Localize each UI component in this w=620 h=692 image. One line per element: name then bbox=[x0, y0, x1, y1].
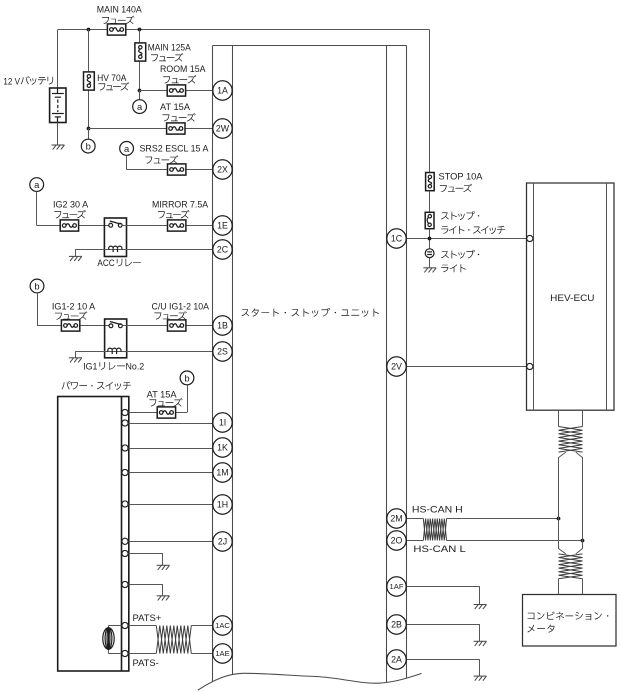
svg-text:a: a bbox=[137, 101, 143, 112]
ground (power switch 1) bbox=[157, 565, 170, 570]
fuse ROOM 15A bbox=[167, 85, 185, 96]
pin 1AC (start-stop unit) bbox=[213, 616, 232, 635]
label MIRROR 7.5A fuse bbox=[152, 199, 209, 218]
wire: power switch to pin 1K bbox=[128, 448, 213, 450]
svg-text:2S: 2S bbox=[217, 347, 228, 357]
pin 2B (start-stop unit) bbox=[387, 615, 406, 634]
svg-text:IG1: IG1 bbox=[83, 362, 97, 372]
svg-text:MAIN 140A: MAIN 140A bbox=[97, 5, 143, 15]
wire: pin 2B to ground bbox=[406, 624, 480, 626]
ground (battery) bbox=[52, 145, 65, 150]
wire: power switch AT 15A branch to node b bbox=[128, 412, 187, 414]
ground (stop light) bbox=[423, 268, 436, 273]
label combination meter bbox=[528, 612, 609, 633]
svg-text:b: b bbox=[86, 141, 91, 152]
svg-text:2W: 2W bbox=[216, 124, 230, 134]
node a (top) bbox=[133, 100, 147, 114]
pin 2W (start-stop unit) bbox=[213, 119, 232, 138]
wire: pin 1C to HEV-ECU bbox=[406, 238, 527, 240]
antenna coil (immobilizer) bbox=[103, 628, 114, 650]
wire: HS-CAN L to CAN bus joint bbox=[447, 540, 583, 542]
label stop light bbox=[441, 250, 479, 272]
svg-text:2X: 2X bbox=[217, 165, 228, 175]
relay ACC switch contacts bbox=[109, 221, 122, 227]
wire: stoplight switch to 1C wire junction bbox=[429, 229, 431, 249]
node: junction MAIN125A / ROOM 15A wire bbox=[138, 89, 142, 93]
pin 1C (start-stop unit) bbox=[387, 229, 406, 248]
wire: ACC relay to MIRROR fuse to pin 1E bbox=[122, 225, 213, 227]
svg-text:1AF: 1AF bbox=[390, 582, 404, 591]
power switch (box) bbox=[58, 397, 129, 672]
twisted pair HS-CAN bbox=[423, 519, 446, 541]
label IG2 30A fuse bbox=[53, 199, 89, 218]
wire: ROOM 15A fuse to pin 1A bbox=[139, 90, 213, 92]
wire: HS-CAN H to CAN bus joint bbox=[447, 518, 559, 520]
svg-text:a: a bbox=[34, 179, 40, 190]
wire: power switch ground 1 bbox=[128, 553, 163, 555]
fuse MAIN 125A bbox=[135, 43, 146, 61]
ground (2B) bbox=[474, 641, 487, 646]
wire: AT 15A fuse to pin 2W bbox=[89, 128, 213, 130]
battery 12V bbox=[50, 88, 66, 123]
fuse SRS2 ESCL 15A bbox=[168, 164, 186, 175]
svg-text:1C: 1C bbox=[391, 234, 403, 244]
relay ACC (box) bbox=[104, 218, 126, 257]
pin: power switch GND1 bbox=[122, 550, 128, 556]
pin 1I (start-stop unit) bbox=[213, 413, 232, 432]
wire: node a to SRS2 fuse to pin 2X bbox=[126, 155, 128, 169]
label AT 15A fuse (power switch) bbox=[147, 389, 183, 406]
wire: node b to IG1-2 fuse bbox=[37, 293, 39, 326]
svg-text:a: a bbox=[124, 143, 130, 154]
wire: pin 2O HS-CAN L bbox=[406, 540, 423, 542]
wire: power switch to pin 1M bbox=[128, 472, 213, 474]
pin 2J (start-stop unit) bbox=[213, 532, 232, 551]
label ROOM 15A fuse bbox=[160, 64, 206, 84]
wire: MAIN 125A branch bbox=[139, 30, 141, 91]
pin 1A (start-stop unit) bbox=[213, 81, 232, 100]
pin: power switch AT fuse bbox=[122, 409, 128, 415]
ground (1AF) bbox=[474, 605, 487, 610]
pin: power switch GND2 bbox=[122, 581, 128, 587]
label start-stop unit bbox=[242, 308, 379, 317]
wire: STOP fuse to stoplight switch bbox=[429, 191, 431, 213]
pin 1H (start-stop unit) bbox=[213, 495, 232, 514]
relay IG1 coil bbox=[108, 348, 121, 354]
svg-text:IG1-2 10 A: IG1-2 10 A bbox=[52, 301, 96, 311]
wire: power switch ground 2 bbox=[128, 584, 163, 586]
pin: power switch 2J bbox=[122, 538, 128, 544]
wire: power switch to pin 2J bbox=[128, 541, 213, 543]
wire: stop branch vertical (from main bus) bbox=[429, 30, 431, 173]
fuse HV 70A bbox=[84, 72, 95, 90]
svg-text:MIRROR 7.5A: MIRROR 7.5A bbox=[152, 199, 209, 209]
wire: stub to node a bbox=[139, 91, 141, 100]
svg-text:2M: 2M bbox=[390, 514, 402, 524]
svg-text:C/U IG1-2 10A: C/U IG1-2 10A bbox=[152, 301, 210, 311]
pin 2S (start-stop unit) bbox=[213, 342, 232, 361]
node: HS-CAN L joint bbox=[581, 539, 585, 543]
wire: main battery bus (top) bbox=[58, 29, 430, 31]
wire: power switch to pin 1I bbox=[128, 423, 213, 425]
node b (AT 15A) bbox=[180, 371, 194, 385]
svg-text:SRS2 ESCL 15 A: SRS2 ESCL 15 A bbox=[140, 144, 210, 154]
fuse STOP 10A bbox=[426, 173, 435, 191]
svg-text:1E: 1E bbox=[217, 221, 228, 231]
svg-text:1AC: 1AC bbox=[215, 621, 230, 630]
relay IG1 switch contacts bbox=[109, 322, 122, 328]
svg-text:2V: 2V bbox=[391, 362, 402, 372]
pin: power switch 1K bbox=[122, 445, 128, 451]
pin: power switch PATS- bbox=[122, 650, 128, 656]
node: junction main bus / HV 70A branch bbox=[87, 28, 91, 32]
pin: power switch 1I bbox=[122, 420, 128, 426]
stop light (lamp) bbox=[425, 249, 434, 258]
CAN bus joint connector (untwisted section) bbox=[559, 452, 566, 554]
wire: ACC relay coil row to pin 2C and to ground bbox=[75, 249, 213, 251]
fuse AT 15A (2W) bbox=[167, 123, 185, 134]
svg-text:AT 15A: AT 15A bbox=[147, 389, 178, 399]
wire: battery to ground bbox=[57, 123, 59, 146]
fuse IG2 30A bbox=[60, 220, 78, 231]
svg-text:PATS-: PATS- bbox=[133, 658, 159, 668]
label MAIN 125A fuse bbox=[148, 43, 192, 62]
wire: battery positive lead bbox=[57, 30, 59, 89]
svg-text:2J: 2J bbox=[218, 537, 227, 547]
svg-text:PATS+: PATS+ bbox=[133, 613, 162, 623]
node: junction main bus / MAIN 125A branch bbox=[138, 28, 142, 32]
label 12V battery bbox=[3, 76, 53, 86]
wire: PATS- lead bbox=[128, 653, 156, 655]
wire: twisted pair to pin 1AC bbox=[191, 625, 213, 627]
pin: HEV-ECU 1C input bbox=[527, 235, 533, 241]
pin: power switch PATS+ bbox=[122, 622, 128, 628]
node: junction HV70A / AT 15A wire bbox=[87, 127, 91, 131]
combination meter (box) bbox=[523, 595, 617, 647]
wire: stop light to ground bbox=[429, 258, 431, 268]
wire: immobilizer antenna loop bbox=[109, 625, 122, 627]
wire: node a to IG2 fuse bbox=[36, 192, 38, 226]
svg-text:ROOM 15A: ROOM 15A bbox=[160, 64, 206, 74]
svg-text:HEV-ECU: HEV-ECU bbox=[550, 293, 594, 303]
label power switch bbox=[62, 381, 131, 390]
label C/U IG1-2 10A fuse bbox=[152, 301, 210, 319]
twisted pair (CAN joint to meter) bbox=[559, 554, 583, 579]
connector stub above combination meter bbox=[559, 579, 583, 595]
wire: pin 2A to ground bbox=[406, 659, 480, 661]
svg-text:2B: 2B bbox=[391, 620, 402, 630]
svg-text:STOP 10A: STOP 10A bbox=[439, 172, 484, 182]
relay ACC coil bbox=[109, 246, 122, 252]
start-stop unit (body rails) bbox=[213, 46, 407, 688]
wire: IG1 relay to C/U fuse to pin 1B bbox=[122, 325, 213, 327]
svg-text:1AE: 1AE bbox=[215, 649, 229, 658]
fuse C/U IG1-2 10A bbox=[168, 320, 186, 331]
svg-text:b: b bbox=[184, 372, 189, 383]
label SRS2 ESCL 15A fuse bbox=[140, 144, 210, 164]
label STOP 10A fuse bbox=[439, 172, 484, 193]
wire: PATS+ lead bbox=[128, 625, 156, 627]
twisted pair (HEV-ECU to CAN joint) bbox=[559, 427, 583, 453]
fuse AT 15A (power switch) bbox=[157, 407, 175, 418]
pin: HEV-ECU 2V input bbox=[527, 363, 533, 369]
svg-text:HV 70A: HV 70A bbox=[97, 73, 127, 83]
fuse IG1-2 10A bbox=[61, 320, 79, 331]
pin 1E (start-stop unit) bbox=[213, 216, 232, 235]
pin 2X (start-stop unit) bbox=[213, 160, 232, 179]
pin 2O (start-stop unit) bbox=[387, 531, 406, 550]
ground (IG1 relay) bbox=[69, 358, 82, 363]
label HV 70A fuse bbox=[97, 73, 129, 91]
pin: power switch 1H bbox=[122, 501, 128, 507]
node: junction stop branch / 1C wire bbox=[428, 237, 432, 241]
svg-text:1A: 1A bbox=[217, 86, 228, 96]
svg-text:1M: 1M bbox=[216, 468, 228, 478]
stop light switch bbox=[425, 212, 434, 228]
pin 2A (start-stop unit) bbox=[387, 650, 406, 669]
svg-text:12 V: 12 V bbox=[3, 76, 20, 86]
pin 1B (start-stop unit) bbox=[213, 316, 232, 335]
wire: stub to node b bbox=[88, 129, 90, 140]
HEV-ECU (box) bbox=[527, 183, 615, 410]
svg-text:2C: 2C bbox=[217, 245, 229, 255]
ground (ACC relay) bbox=[69, 256, 82, 261]
label MAIN 140A fuse bbox=[97, 5, 143, 25]
svg-text:1H: 1H bbox=[217, 500, 228, 510]
wire: power switch to pin 1H bbox=[128, 504, 213, 506]
wire: pin 2M HS-CAN H bbox=[406, 518, 423, 520]
connector stub below HEV-ECU bbox=[559, 410, 583, 426]
pin 1AE (start-stop unit) bbox=[213, 644, 232, 663]
label stop light switch bbox=[441, 211, 505, 234]
pin: power switch 1M bbox=[122, 469, 128, 475]
svg-text:AT 15A: AT 15A bbox=[160, 102, 191, 112]
wire: pin 2V to HEV-ECU bbox=[406, 366, 527, 368]
relay IG1 No.2 (box) bbox=[105, 319, 127, 358]
wire: twisted pair to pin 1AE bbox=[191, 653, 213, 655]
wire: IG1 relay coil row to pin 2S and ground bbox=[75, 351, 213, 353]
svg-text:2O: 2O bbox=[391, 536, 403, 546]
ground (power switch 2) bbox=[157, 596, 170, 601]
svg-text:b: b bbox=[34, 280, 39, 291]
pin 1M (start-stop unit) bbox=[213, 463, 232, 482]
svg-text:1B: 1B bbox=[217, 321, 228, 331]
svg-text:2A: 2A bbox=[391, 655, 402, 665]
svg-text:HS-CAN H: HS-CAN H bbox=[412, 504, 463, 514]
svg-text:No.2: No.2 bbox=[126, 362, 145, 372]
label IG1 relay No.2 bbox=[83, 362, 144, 372]
svg-text:1I: 1I bbox=[219, 418, 226, 428]
pin 2V (start-stop unit) bbox=[387, 357, 406, 376]
svg-text:IG2 30 A: IG2 30 A bbox=[53, 199, 89, 209]
svg-text:MAIN 125A: MAIN 125A bbox=[148, 43, 192, 53]
label AT 15A fuse (2W) bbox=[160, 102, 196, 122]
label IG1-2 10A fuse bbox=[52, 301, 96, 320]
node a (IG2) bbox=[30, 178, 44, 192]
ground (2A) bbox=[474, 676, 487, 681]
pin 2C (start-stop unit) bbox=[213, 240, 232, 259]
start-stop unit torn bottom edge bbox=[198, 673, 422, 692]
svg-text:ACC: ACC bbox=[97, 258, 115, 268]
pin 2M (start-stop unit) bbox=[387, 509, 406, 528]
fuse MIRROR 7.5A bbox=[168, 220, 186, 231]
twisted pair PATS bbox=[156, 626, 191, 654]
label ACC relay bbox=[97, 258, 140, 268]
wire: HV 70A branch bbox=[88, 30, 90, 129]
svg-text:1K: 1K bbox=[217, 443, 228, 453]
fuse MAIN 140A bbox=[107, 24, 125, 35]
node: HS-CAN H joint bbox=[557, 517, 561, 521]
node b (top) bbox=[81, 139, 95, 153]
pin 1AF (start-stop unit) bbox=[387, 577, 406, 596]
pin 1K (start-stop unit) bbox=[213, 438, 232, 457]
node b (IG1-2) bbox=[30, 279, 44, 293]
node a (SRS2) bbox=[120, 142, 134, 156]
wire: pin 1AF to ground bbox=[406, 586, 480, 588]
svg-text:HS-CAN L: HS-CAN L bbox=[413, 544, 465, 554]
